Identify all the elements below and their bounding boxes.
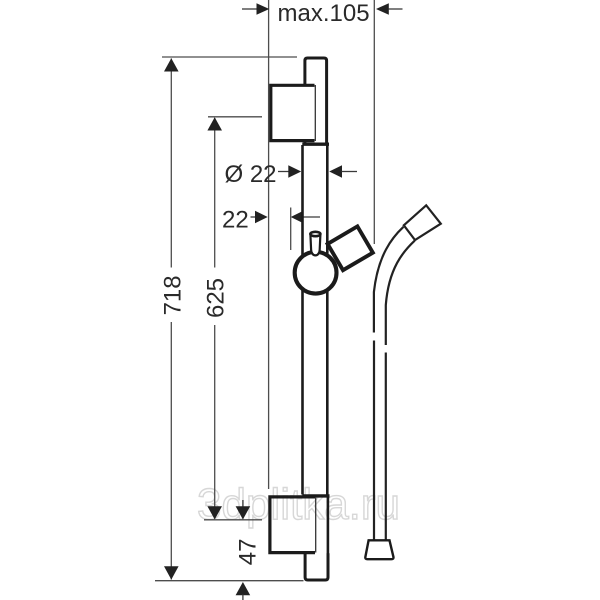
svg-text:718: 718 <box>160 275 187 315</box>
wall plane extension line <box>268 0 270 489</box>
bottom wall bracket white face <box>270 497 315 553</box>
top wall bracket white face <box>271 85 315 140</box>
slide bar right edge lower segment <box>327 495 330 555</box>
svg-text:max.105: max.105 <box>278 0 370 27</box>
dimension 718 top arrowhead <box>164 58 179 71</box>
dimension 718 line upper segment <box>170 59 172 268</box>
svg-text:625: 625 <box>203 278 230 318</box>
dimension 22 left tail line <box>251 216 257 218</box>
hose connector nut <box>404 205 441 240</box>
hose outer line upper <box>374 227 404 333</box>
bottom wall bracket <box>270 497 315 553</box>
dimension 47 upper arrowhead <box>236 506 251 519</box>
dimension 47 lower arrowhead <box>236 582 251 595</box>
hose outer line lower <box>373 341 375 541</box>
bottom junction band <box>302 494 329 497</box>
bottom wall bracket thin right edge <box>315 497 317 553</box>
shower holder cradle <box>328 226 373 270</box>
slide bar top cap (under bracket) <box>305 58 327 144</box>
dimension 22 left arrowhead <box>255 211 268 223</box>
hose inner line upper <box>386 241 415 345</box>
slide bar left edge <box>301 145 304 495</box>
dimension diameter 22 left arrowhead <box>288 165 301 177</box>
slider knob <box>295 252 337 294</box>
slide bar bottom cap <box>305 553 328 580</box>
top junction band <box>302 142 329 145</box>
dimension 625 top arrowhead <box>207 117 222 130</box>
dimension 22 bar-centre extension line <box>290 208 292 251</box>
dimension 625 line lower segment <box>214 325 216 519</box>
dimension diameter 22 right arrowhead <box>329 165 342 177</box>
top wall bracket thin right edge <box>314 85 316 141</box>
svg-text:47: 47 <box>235 539 262 566</box>
dimension 22 right arrowhead <box>291 211 304 223</box>
dimension 625 top extension line <box>208 116 262 118</box>
top wall bracket <box>271 85 315 140</box>
dimension 718 bottom arrowhead <box>164 566 179 579</box>
slide bar right edge <box>326 145 329 495</box>
dimension max.105 left arrowhead <box>257 3 270 15</box>
slider release pin body <box>310 234 320 255</box>
dimension max.105 right arrowhead <box>376 3 389 15</box>
svg-text:3dplitka.ru: 3dplitka.ru <box>197 480 400 529</box>
dimension 718 bottom extension line <box>155 580 304 582</box>
dimension max.105 right extension line <box>373 0 375 244</box>
dimension max.105 right tail line <box>389 8 403 10</box>
hose end cone <box>365 540 393 559</box>
dimension 22 right tail line <box>303 216 320 218</box>
dimension 718 line lower segment <box>170 322 172 580</box>
svg-text:Ø 22: Ø 22 <box>225 161 277 188</box>
hose inner line lower <box>385 353 387 541</box>
dimension max.105 left tail line <box>242 8 257 10</box>
dimension 47 upper stub line <box>242 500 244 507</box>
dimension 47 lower stub line <box>242 595 244 600</box>
dimension diameter 22 left tail line <box>278 171 289 173</box>
dimension diameter 22 right tail line <box>342 171 358 173</box>
slider release pin top cap <box>310 232 320 236</box>
dimension 718 top extension line <box>162 56 297 58</box>
dimension 625 line upper segment <box>214 118 216 268</box>
dimension 625 bottom arrowhead <box>207 506 222 519</box>
dimension 625 bottom extension line <box>204 519 262 521</box>
svg-text:22: 22 <box>222 207 249 234</box>
